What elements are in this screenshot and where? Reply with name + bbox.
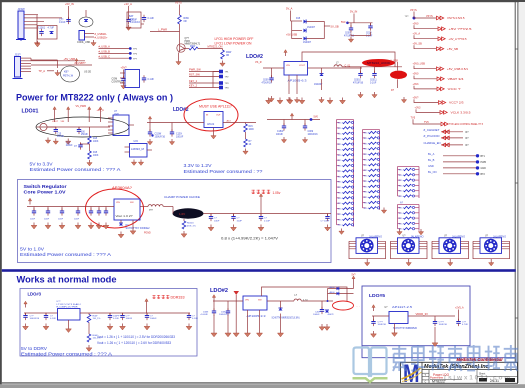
svg-text:100UF: 100UF	[126, 318, 133, 320]
array RN2 row 4	[363, 148, 366, 150]
ground under divider	[87, 160, 92, 166]
diode D1500B	[304, 29, 307, 33]
capacitor across divider	[80, 143, 82, 145]
array RN2 row 5	[363, 153, 366, 155]
svg-text:R15: R15	[249, 126, 254, 128]
array RN1 row 16	[337, 202, 340, 204]
svg-text:C009: C009	[263, 80, 269, 82]
svg-text:4.7UF: 4.7UF	[462, 324, 469, 326]
output port +5V_USB	[413, 63, 469, 71]
diode D1500C	[304, 37, 307, 41]
capacitor C15X 100UF	[171, 123, 173, 133]
svg-text:BT2: BT2	[481, 173, 486, 176]
array RN1 row 11	[337, 175, 340, 177]
svg-text:ADJ: ADJ	[227, 119, 231, 122]
svg-text:+3V_A ???/0.5: +3V_A ???/0.5	[449, 37, 467, 41]
svg-text:VCC? 2/3: VCC? 2/3	[449, 101, 464, 105]
svg-text:VSYS: VSYS	[175, 2, 182, 5]
svg-text:TV5 LED1 CONTROL PANEL ?/7.5: TV5 LED1 CONTROL PANEL ?/7.5	[449, 122, 483, 126]
svg-text:Vout 1.0 2?: Vout 1.0 2?	[116, 214, 134, 218]
svg-text:GND: GND	[481, 167, 487, 170]
schottky diode D16	[119, 223, 123, 226]
red down arrow enable	[234, 291, 240, 295]
array RN4 row 5	[398, 228, 401, 230]
svg-text:#_USB??: #_USB??	[75, 61, 87, 65]
ground under R1504	[220, 61, 225, 67]
svg-text:C0010: C0010	[354, 80, 361, 82]
array RN2 row 12	[363, 191, 366, 193]
array RN2 row 7	[363, 164, 366, 166]
capacitor CSW3	[61, 207, 63, 212]
feedback resistors R15	[245, 123, 247, 125]
capacitor right of battery box	[142, 15, 146, 22]
svg-text:C? 10UF: C? 10UF	[321, 221, 330, 223]
pad TP2 net RST_SW	[189, 76, 219, 78]
main wire LDO#3	[24, 312, 58, 314]
array RN1 row 1	[337, 122, 340, 124]
svg-text:0.1UF/16: 0.1UF/16	[130, 21, 141, 24]
svg-text:5V to DDRV: 5V to DDRV	[21, 346, 47, 351]
title block small cells	[428, 370, 430, 384]
input wire	[27, 206, 114, 208]
svg-text:470UF/16: 470UF/16	[262, 82, 273, 84]
array RN1 row 17	[337, 208, 340, 210]
capacitor C15	[55, 127, 57, 130]
array RN1 row 19	[337, 218, 340, 220]
svg-text:A400: A400	[330, 291, 336, 294]
capacitor on output 10UF	[233, 214, 235, 217]
main wire LDO#2 bottom	[213, 300, 243, 302]
pad TP3 net KEY_1	[189, 82, 219, 84]
main wire into APL1117	[147, 122, 204, 124]
divider resistor R15 100K lower	[89, 144, 91, 151]
array RN2 row 3	[363, 142, 366, 144]
svg-text:5V to 1.0V: 5V to 1.0V	[20, 246, 44, 251]
svg-text:100UF/16: 100UF/16	[155, 135, 166, 138]
capacitor CSW2	[47, 207, 49, 212]
border zone tick marks	[515, 48, 518, 50]
grounds under caps	[147, 139, 152, 145]
svg-text:#_USB1D-: #_USB1D-	[95, 32, 108, 36]
ground under APL1117	[213, 128, 215, 134]
svg-text:#_USB_A: #_USB_A	[99, 45, 111, 49]
capacitor 0.1UF	[188, 313, 190, 316]
array RN1 row 12	[337, 181, 340, 183]
array RN4 row 1	[398, 207, 401, 209]
array RN2 row 11	[363, 185, 366, 187]
svg-text:TV5: TV5	[424, 121, 429, 124]
capacitor 100UF	[146, 313, 148, 316]
capacitor C 100UF/16	[25, 313, 27, 316]
svg-text:BL_ON: BL_ON	[428, 170, 437, 174]
grounds row LDO#1	[45, 138, 50, 144]
svg-text:TP_A: TP_A	[39, 69, 46, 73]
svg-text:+3V_A: +3V_A	[97, 109, 105, 112]
feedback top wire	[302, 52, 395, 67]
svg-text:SCHOTTKY/MBR0520: SCHOTTKY/MBR0520	[393, 328, 418, 330]
LDO#3 section box	[20, 289, 197, 357]
array RN2 row 15	[363, 207, 366, 209]
red highlight ellipse around switcher	[86, 189, 144, 228]
svg-text:0.1UF: 0.1UF	[148, 78, 155, 81]
svg-text:1N4007: 1N4007	[303, 42, 312, 44]
svg-text:4.7UF: 4.7UF	[48, 27, 55, 30]
svg-text:200UF: 200UF	[66, 145, 73, 147]
svg-text:+5V0_USB: +5V0_USB	[413, 63, 426, 66]
output port VCC2	[413, 96, 464, 104]
svg-text:250UF: 250UF	[81, 134, 88, 136]
capacitor C16	[78, 127, 80, 130]
switching IC U16	[114, 199, 140, 220]
svg-text:100UF: 100UF	[176, 135, 184, 138]
power arrow right (DDR rail)	[145, 299, 148, 305]
array RN1 row 2	[337, 127, 340, 129]
capacitor C 0.1UF input	[45, 313, 47, 316]
svg-text:US 3D: US 3D	[84, 71, 91, 74]
svg-text:Estimated Power consumed : ???: Estimated Power consumed : ??? A	[30, 167, 121, 172]
svg-text:+100UF: +100UF	[200, 314, 209, 316]
comparator U1500 LM393 (top)	[125, 70, 140, 88]
capacitor C009 470UF	[350, 23, 352, 28]
array RN3 row 5	[398, 190, 401, 192]
svg-text:Works at normal mode: Works at normal mode	[17, 273, 117, 284]
svg-text:KEY_2: KEY_2	[189, 84, 198, 88]
svg-text:VCC ?: VCC ?	[448, 87, 461, 91]
net label L_PWR on base wire	[150, 31, 180, 33]
svg-text:0R: 0R	[184, 20, 187, 23]
capacitor C1501	[39, 29, 43, 36]
ground under EMI box	[35, 41, 40, 47]
TVS diode D1501	[50, 32, 54, 35]
svg-text:AP1005-3.3: AP1005-3.3	[247, 314, 266, 318]
svg-text:+3V3: +3V3	[413, 83, 420, 86]
svg-text:C???: C???	[439, 322, 445, 324]
svg-text:VSYS: VSYS	[426, 15, 433, 18]
svg-text:R15: R15	[93, 152, 98, 154]
net label MT8222_ON	[198, 48, 223, 50]
diode D15 in ellipse	[84, 20, 88, 23]
svg-text:VIN: VIN	[61, 121, 65, 123]
resistor R1504 pulldown	[221, 50, 225, 59]
array RN2 row 9	[363, 175, 366, 177]
input cap	[373, 316, 375, 322]
power arrow input	[212, 295, 215, 301]
svg-text:LDO#3: LDO#3	[28, 291, 42, 296]
svg-text:0.1UF: 0.1UF	[370, 82, 377, 84]
array RN1 row 13	[337, 186, 340, 188]
svg-text:10UF: 10UF	[44, 219, 50, 221]
svg-text:C009: C009	[345, 33, 351, 35]
array RN2 row 8	[363, 169, 366, 171]
ESD protection ellipse highlight	[79, 17, 93, 27]
diode DA	[337, 287, 339, 291]
resistor R1503 on collector wire	[185, 48, 190, 50]
array RN2 row 14	[363, 201, 366, 203]
svg-text:VCLK 3.3/0.5: VCLK 3.3/0.5	[451, 111, 471, 115]
svg-text:100UF/16: 100UF/16	[30, 318, 40, 320]
switching regulator AP1005-3.3	[243, 296, 267, 310]
svg-text:C019: C019	[366, 33, 372, 35]
svg-text:3.3V to 1.2V: 3.3V to 1.2V	[184, 163, 212, 168]
pad TP1 net PWR_SW	[189, 71, 219, 73]
svg-text:SCHOTTKY/MBR0520LT1(0.38V): SCHOTTKY/MBR0520LT1(0.38V)	[272, 317, 300, 320]
svg-text:C???: C???	[378, 322, 384, 324]
diode OR-ing network D1500	[291, 20, 303, 22]
ground under array RN1	[339, 229, 344, 235]
array RN2 row 1	[363, 132, 366, 134]
grounds row top of mid-right	[266, 98, 272, 104]
svg-text:Core Power 1.0V: Core Power 1.0V	[24, 190, 67, 196]
svg-text:0.1UF: 0.1UF	[192, 318, 199, 320]
svg-text:5V to 3.3V: 5V to 3.3V	[30, 162, 53, 167]
capacitor C019 0.1UF	[370, 23, 372, 26]
watermark Chinese characters	[392, 345, 406, 371]
svg-text:PWR: PWR	[185, 41, 191, 43]
array RN1 row 10	[337, 170, 340, 172]
net labels USB1D	[85, 33, 95, 35]
svg-text:L_PWR: L_PWR	[158, 28, 167, 32]
svg-text:10UF: 10UF	[74, 219, 80, 221]
svg-text:Estimated Power consumed : ??: Estimated Power consumed : ??	[184, 169, 264, 174]
pad TP4 net KEY_2	[189, 87, 219, 89]
feedback top wire	[262, 287, 348, 301]
svg-text:C: C	[425, 381, 427, 384]
svg-text:KEY_1: KEY_1	[189, 79, 198, 83]
svg-text:0.8 x (1+4.99K/2.2K) = 1.047V: 0.8 x (1+4.99K/2.2K) = 1.047V	[221, 235, 278, 240]
array RN3 row 4	[398, 184, 401, 186]
svg-text:R0204: R0204	[187, 223, 194, 225]
svg-text:+5V_USB: +5V_USB	[286, 34, 297, 37]
red note only for DDR333	[152, 295, 155, 299]
power arrow LDO#2	[148, 116, 151, 122]
svg-text:PETH_W: PETH_W	[63, 75, 74, 78]
grounds under U15B	[131, 160, 136, 166]
schottky diode	[279, 308, 283, 311]
svg-text:PWR_SW: PWR_SW	[189, 68, 201, 72]
array RN1 row 18	[337, 213, 340, 215]
svg-text:LDO#5: LDO#5	[369, 293, 385, 298]
capacitor cluster caps	[283, 120, 285, 127]
red highlight ellipse output net	[333, 301, 354, 310]
svg-text:Estimated Power consumed : ???: Estimated Power consumed : ??? A	[21, 352, 112, 357]
svg-text:J15?: J15?	[15, 53, 22, 57]
svg-text:VOUT: VOUT	[299, 65, 306, 67]
svg-text:DDR333: DDR333	[171, 296, 185, 300]
array RN1 row 20	[337, 224, 340, 226]
svg-text:5V0: 5V0	[341, 21, 346, 24]
svg-text:BT1: BT1	[481, 155, 486, 158]
array RN1 row 8	[337, 159, 340, 161]
svg-text:Estimated Power consumed : ???: Estimated Power consumed : ??? A	[20, 252, 111, 257]
svg-text:MT8222_ON: MT8222_ON	[208, 45, 223, 49]
svg-text:49.9_1%: 49.9_1%	[187, 225, 196, 227]
svg-text:#_CHGDET: #_CHGDET	[424, 128, 440, 132]
main wire LDO#1	[47, 126, 110, 128]
svg-text:OUT: OUT	[216, 115, 221, 117]
svg-text:4007F: 4007F	[328, 314, 335, 316]
svg-text:C10: C10	[66, 143, 71, 145]
wire stubs U1500	[120, 72, 125, 74]
svg-text:1.0V: 1.0V	[179, 212, 185, 216]
svg-text:#_USB_B: #_USB_B	[99, 50, 111, 54]
array RN3 row 2	[398, 174, 401, 176]
feedback resistor upper R 110_1%	[88, 313, 90, 315]
svg-text:+5V ???/2.5: +5V ???/2.5	[449, 27, 472, 31]
regulator APL1117	[204, 112, 223, 128]
svg-text:RST_SW: RST_SW	[189, 73, 200, 77]
output port VBAT	[413, 73, 464, 81]
svg-text:+5V_SB: +5V_SB	[447, 47, 458, 51]
array RN4 row 3	[398, 217, 401, 219]
feedback resistor R0204	[183, 219, 185, 221]
output port VCC	[413, 83, 461, 91]
resistor R0W 0R	[178, 15, 182, 24]
battery box B1500	[127, 12, 141, 28]
svg-text:SCHOTTKY DIODE2: SCHOTTKY DIODE2	[126, 228, 151, 230]
svg-text:100UF: 100UF	[313, 314, 320, 316]
svg-text:Power for MT8222 only ( Always: Power for MT8222 only ( Always on )	[16, 93, 173, 104]
svg-text:VSYS 0.5/2.5: VSYS 0.5/2.5	[447, 16, 465, 20]
array RN1 row 7	[337, 154, 340, 156]
svg-text:PGND: PGND	[144, 233, 151, 235]
svg-text:+5V0: +5V0	[413, 73, 420, 76]
svg-text:4700UF: 4700UF	[129, 19, 138, 22]
array RN3 row 1	[398, 169, 401, 171]
svg-text:( s j w x 1 0 1 ) . c o m: ( s j w x 1 0 1 ) . c o m	[444, 374, 511, 381]
svg-text:VIN: VIN	[245, 300, 249, 302]
svg-text:0.1UF: 0.1UF	[148, 17, 155, 20]
svg-text:LM393_M: LM393_M	[131, 148, 144, 151]
watermark book logo	[354, 348, 387, 377]
capacitor on output 10UF	[210, 214, 212, 217]
svg-text:5V_A: 5V_A	[286, 7, 293, 11]
svg-text:C0011: C0011	[370, 80, 377, 82]
capacitor 0.1UF	[109, 313, 111, 316]
svg-text:APL02: APL02	[207, 123, 215, 126]
svg-text:D15: D15	[296, 18, 301, 20]
power arrow input	[28, 198, 31, 204]
svg-text:10UF/16: 10UF/16	[378, 324, 387, 326]
svg-text:10UF: 10UF	[58, 219, 64, 221]
svg-text:5V_IN: 5V_IN	[350, 10, 357, 14]
output port +5V_SB	[413, 42, 459, 51]
title block frame	[401, 362, 518, 383]
array RN2 row 6	[363, 158, 366, 160]
svg-text:#_PGOOD: #_PGOOD	[424, 134, 440, 138]
highlight ellipse around LDO#1 circuit	[36, 117, 129, 137]
svg-text:Vout = 1.26 x ( 1 + 110/110 ): Vout = 1.26 x ( 1 + 110/110 ) = 2.5V for…	[97, 335, 175, 339]
output caps after inductor	[321, 301, 323, 310]
5V diode pair feed loop	[351, 274, 356, 282]
svg-text:C1501: C1501	[38, 27, 46, 30]
svg-text:LDO#2: LDO#2	[210, 288, 228, 294]
LDO#5 section box	[362, 286, 470, 346]
resistor array RN2	[363, 129, 380, 131]
svg-text:VBAT 3/4: VBAT 3/4	[448, 77, 464, 81]
svg-text:MUST USE APL1117: MUST USE APL1117	[199, 105, 232, 109]
svg-text:MediaTek Confidential: MediaTek Confidential	[457, 357, 504, 362]
capacitor C0010	[360, 67, 362, 74]
grounds under AP1005 section	[288, 75, 290, 94]
svg-text:+1_USB: +1_USB	[389, 60, 398, 63]
red highlight ellipse MUST USE APL1117	[184, 99, 238, 131]
svg-text:100UF: 100UF	[150, 318, 157, 320]
output port VCLK	[415, 106, 471, 114]
svg-text:C15W: C15W	[277, 131, 284, 133]
sheet border frame	[0, 0, 525, 2]
svg-text:R0W: R0W	[190, 45, 196, 48]
svg-text:100UF: 100UF	[276, 134, 283, 136]
feedback resistor lower R 110_1%	[88, 323, 90, 335]
svg-text:MT8222_AVDD: MT8222_AVDD	[367, 61, 390, 65]
net label +5V_USB with power arrow	[31, 60, 85, 62]
regulator U? AP1005-6.3	[284, 50, 287, 56]
svg-text:100PF: 100PF	[113, 316, 120, 318]
input wire to AP1005	[263, 67, 284, 69]
svg-text:+2V5_A: +2V5_A	[455, 307, 464, 310]
capacitor C0011	[374, 67, 376, 74]
svg-text:1N4007: 1N4007	[307, 27, 316, 29]
svg-text:C009: C009	[308, 131, 314, 133]
capacitor C009 on input	[271, 68, 273, 78]
resistor array RN4	[398, 204, 420, 206]
net label #_USB2	[31, 64, 92, 66]
svg-text:Vout = 1.26 x ( 1 + 120/110 ): Vout = 1.26 x ( 1 + 120/110 ) = 2.6V for…	[97, 341, 171, 345]
svg-text:0.1UF: 0.1UF	[113, 318, 120, 320]
svg-text:GND: GND	[428, 164, 434, 168]
svg-text:C15: C15	[57, 134, 62, 136]
svg-text:100U: 100U	[221, 312, 227, 314]
svg-text:+5V0: +5V0	[413, 22, 420, 25]
divider resistor R15 100K upper	[89, 127, 91, 136]
svg-text:J15W: J15W	[18, 7, 26, 11]
array RN2 row 2	[363, 137, 366, 139]
diode DB	[337, 292, 339, 296]
svg-text:1K: 1K	[249, 144, 252, 146]
red note 1.05v	[252, 190, 255, 194]
power arrow input	[372, 305, 375, 311]
wire J1502 pins	[21, 57, 32, 59]
capacitor on output 0.1UF	[260, 214, 262, 217]
ground under array RN2	[381, 208, 386, 214]
svg-text:+3V_A: +3V_A	[124, 2, 132, 6]
svg-text:LT1117-CST3 R-ADJ: LT1117-CST3 R-ADJ	[57, 303, 81, 306]
array RN1 row 14	[337, 191, 340, 193]
svg-text:1.05v: 1.05v	[273, 191, 281, 195]
svg-text:PWR: PWR	[481, 161, 487, 164]
red highlight ellipse on output net	[362, 59, 395, 67]
svg-text:#_USB1D+: #_USB1D+	[95, 36, 109, 40]
ground for cap pair	[348, 37, 353, 43]
svg-text:10UF: 10UF	[30, 219, 36, 221]
svg-text:TV5: TV5	[411, 117, 416, 120]
power arrow input	[24, 301, 27, 307]
svg-text:5V?: 5V?	[351, 274, 356, 276]
svg-text:100UF/16: 100UF/16	[308, 134, 319, 136]
EMI filter box with C1501 caps and TVS diode	[38, 26, 58, 40]
svg-text:+5V?: +5V?	[413, 96, 420, 99]
output cap at box edge	[327, 214, 329, 217]
svg-text:CON1_USB: CON1_USB	[77, 41, 90, 44]
array RN1 row 3	[337, 132, 340, 134]
5V filter cluster	[290, 113, 293, 119]
feedback caps in ellipse	[90, 207, 92, 212]
svg-text:0.1UF: 0.1UF	[59, 21, 66, 24]
array RN3 row 6	[398, 195, 401, 197]
resistor array RN3	[398, 166, 420, 168]
svg-text:Switch Regulator: Switch Regulator	[24, 184, 67, 190]
svg-text:C40F: C40F	[315, 312, 321, 314]
